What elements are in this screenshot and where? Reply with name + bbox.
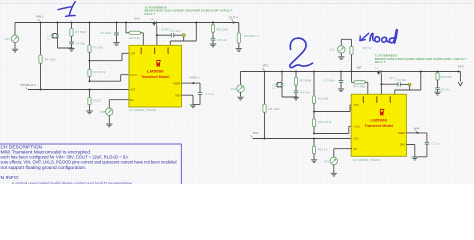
wire: U1 SENSE pin 3 to OUT bus (170, 23, 196, 46)
node UVLO tap circuit 2 (313, 133, 315, 135)
wire: OVP tap to U1 OVP pin (90, 53, 130, 60)
svg-text:R1 20k: R1 20k (93, 46, 103, 50)
voltage source VB5 on EN (109, 100, 129, 109)
resistor R6 100k (40, 23, 42, 56)
wire: GND pin of U1 to ground (182, 95, 194, 104)
svg-text:ID 9: ID 9 (135, 16, 140, 20)
svg-text:R4 4.99k: R4 4.99k (353, 85, 366, 89)
svg-text:C4 20n: C4 20n (76, 42, 86, 46)
diode D2 (56, 34, 59, 37)
ground at U1 GND (190, 105, 196, 108)
svg-text:V10: V10 (231, 87, 237, 91)
transistor Q2 PMOS pass FET (154, 21, 156, 26)
svg-text:U2 LM5060_TRANS: U2 LM5060_TRANS (353, 158, 380, 162)
svg-text:OVP: OVP (130, 53, 135, 56)
svg-text:VIN 1: VIN 1 (36, 15, 44, 19)
svg-text:VF1: VF1 (263, 64, 269, 68)
svg-text:R3 1k: R3 1k (93, 99, 101, 103)
wire: OUT to RLOAD (234, 23, 239, 34)
wire: diode pair to C4 node circuit 2 (277, 87, 296, 97)
wire: UVLO tap to U1 UVLO pin (90, 75, 130, 82)
capacitor C4 20n (69, 42, 74, 44)
diode D2 circuit 2 (280, 83, 283, 86)
svg-text:V12: V12 (330, 47, 336, 51)
ground below C2 (113, 43, 119, 46)
ground at U2 GND (412, 157, 418, 160)
capacitor C5 10n circuit 2 (435, 88, 440, 90)
wire: U2 SENSE pin to VF1 bus (395, 72, 421, 95)
node OVP tap circuit 2 (313, 111, 315, 113)
ground below C4 (68, 48, 74, 51)
svg-text:TIMER: TIMER (173, 82, 181, 85)
svg-text:BESDV=D50 C6G2=Q40SP CE02=40P: BESDV=D50 C6G2=Q40SP CE02=40P CG50=270P … (145, 9, 233, 13)
svg-text:V11: V11 (324, 159, 329, 163)
resistor R8 100k circuit 2 (437, 71, 439, 73)
svg-text:C2 100n: C2 100n (100, 31, 112, 35)
probe on C1 output (182, 34, 185, 37)
handwritten annotation word load (370, 33, 374, 40)
voltage source V11 on EN circuit 2 (334, 149, 352, 158)
resistor R10 30.1k circuit 2 (313, 112, 315, 120)
voltage source VIN (14, 23, 16, 36)
resistor R7 500k (71, 22, 73, 24)
ground below R3 (86, 111, 92, 114)
svg-text:GND: GND (400, 144, 406, 147)
wire: R4 to U2 VIN pin (365, 82, 368, 94)
resistor R3 1k (89, 89, 91, 91)
wire: Q2 gate to gate node (156, 26, 158, 36)
description text box border (0, 144, 181, 192)
ground below C2 circuit 2 (338, 89, 344, 92)
capacitor C10 20n (381, 83, 397, 85)
resistor R11 20k circuit 2 (313, 71, 315, 73)
svg-text:C7 1u: C7 1u (205, 92, 213, 96)
svg-text:EN: EN (354, 148, 358, 151)
resistor R2 30.1k (89, 61, 91, 70)
transistor T1 PMOS pass FET circuit 2 (379, 70, 381, 75)
svg-text:R7 500k: R7 500k (300, 79, 312, 83)
svg-text:R4 5.0k: R4 5.0k (130, 36, 141, 40)
ground below V11 (331, 173, 337, 176)
svg-text:R9 7.2: R9 7.2 (363, 46, 372, 50)
svg-text:RLOAD 7.2: RLOAD 7.2 (244, 34, 260, 38)
svg-text:R8 100k: R8 100k (216, 28, 228, 32)
resistor R4 5.0k (125, 22, 127, 24)
svg-text:ABT: ABT (357, 66, 362, 70)
svg-text:N INFO:: N INFO: (1, 175, 20, 180)
resistor R8 100k (212, 22, 214, 24)
svg-text:RG=1 T: RG=1 T (375, 60, 386, 64)
svg-text:R6 100k: R6 100k (269, 107, 281, 111)
svg-text:R6 100k: R6 100k (45, 58, 57, 62)
svg-text:nFLT: nFLT (130, 89, 136, 92)
ground below R12 (311, 160, 317, 163)
svg-text:R11 20k: R11 20k (318, 97, 329, 101)
svg-text:GND: GND (175, 94, 181, 97)
handwritten annotation digit 1 (58, 2, 75, 17)
svg-text:nFLT: nFLT (354, 138, 360, 141)
voltage source V10 (240, 72, 242, 86)
capacitor C2 100n (116, 22, 118, 24)
capacitor C5 10n (211, 38, 216, 40)
svg-text:R2 30.1k: R2 30.1k (93, 70, 106, 74)
svg-text:UP 7: UP 7 (389, 76, 396, 80)
diode D3 (57, 22, 59, 24)
ground below V12 (338, 57, 344, 60)
resistor R6 100k circuit 2 (264, 72, 266, 105)
svg-text:LM5060: LM5060 (371, 119, 388, 123)
svg-text:C1 10n: C1 10n (171, 29, 180, 33)
sheet top border line (0, 3, 474, 5)
load branch: resistor R9 7.2 (351, 71, 353, 73)
op-amp U1 LM5060 transient model block (129, 45, 182, 107)
ground below VIN (12, 49, 18, 52)
svg-text:RTN/FLG 3: RTN/FLG 3 (21, 83, 37, 87)
svg-text:TIMER: TIMER (398, 132, 406, 135)
svg-text:LM5060: LM5060 (147, 70, 164, 74)
ground below VB5 (106, 124, 112, 127)
svg-text:OUT 4: OUT 4 (229, 15, 238, 19)
svg-text:UVLO: UVLO (130, 74, 137, 77)
node gate (156, 34, 158, 36)
svg-text:EN: EN (130, 99, 134, 102)
ground below C5 (210, 44, 216, 47)
svg-text:C5 10n: C5 10n (217, 38, 227, 42)
svg-text:VP4: VP4 (414, 127, 420, 131)
svg-text:GATE 8: GATE 8 (161, 28, 171, 32)
node gate circuit 2 (380, 83, 382, 85)
svg-text:C4 20n: C4 20n (300, 91, 310, 95)
handwritten annotation digit 2 (290, 38, 313, 67)
resistor R4 4.99k circuit 2 (352, 72, 355, 83)
capacitor C2 100n circuit 2 (340, 71, 342, 73)
svg-text:C2 100n: C2 100n (324, 79, 336, 83)
wire: diode pair to C4 node (53, 38, 72, 48)
wire: VF2 net to U2 (253, 138, 353, 140)
wire: GND pin of U2 to ground (406, 145, 415, 157)
svg-text:e original unencrypted model p: e original unencrypted model please cont… (12, 181, 133, 184)
wire: RTN/FLG net to U1 (28, 89, 129, 91)
wire: OVP tap to U2 (314, 105, 352, 112)
svg-text:OVP: OVP (354, 104, 359, 107)
svg-text:not support floating ground co: not support floating ground configuratio… (1, 165, 87, 170)
ground below RLOAD (236, 49, 242, 52)
wire: gate node to U1 GATE pin 2 (156, 35, 158, 45)
svg-text:R7 500k: R7 500k (75, 30, 87, 34)
svg-text:Transient Model: Transient Model (141, 75, 170, 79)
capacitor C7 timer (198, 93, 203, 95)
svg-text:TIMER 2: TIMER 2 (189, 76, 200, 80)
svg-text:VF3: VF3 (458, 64, 464, 68)
resistor R1 20k (89, 22, 91, 24)
ground below C5 circuit 2 (434, 92, 440, 95)
wire: T1 gate to gate node circuit 2 (380, 75, 382, 85)
svg-text:C5 10n: C5 10n (440, 87, 450, 91)
wire: gate node to U2 GATE pin (380, 84, 382, 94)
svg-text:UVLO: UVLO (354, 126, 361, 129)
ground below V10 (237, 97, 243, 100)
resistor RLOAD 7.2 (237, 33, 240, 43)
svg-text:VF2: VF2 (253, 131, 259, 135)
wire: VIN top bus circuit 1 (15, 22, 234, 24)
svg-text:C10 20n: C10 20n (396, 78, 407, 82)
wire: R4 to U1 VIN pin 1 (140, 33, 143, 46)
svg-text:R12 1k: R12 1k (318, 148, 328, 152)
diode D3 circuit 2 (281, 71, 283, 73)
svg-text:VIN: VIN (5, 37, 10, 41)
svg-text:Transient Model: Transient Model (365, 124, 394, 128)
svg-text:R8 100k: R8 100k (440, 75, 452, 79)
ground below C4 circuit 2 (293, 97, 299, 100)
svg-text:U1 LM5060_TRANS: U1 LM5060_TRANS (129, 108, 156, 112)
arrow terminal at VF3 (458, 82, 462, 86)
svg-text:C7 1u: C7 1u (431, 142, 439, 146)
svg-text:R10 30.1k: R10 30.1k (318, 120, 332, 124)
svg-text:RG=1 T: RG=1 T (145, 12, 156, 16)
node OVP divider tap (89, 60, 91, 62)
handwritten annotation arrow to load (360, 33, 369, 40)
wire: VF1 top bus circuit 2 (241, 71, 459, 73)
probe on C10 output (408, 83, 411, 86)
capacitor C7 timer circuit 2 (425, 142, 430, 144)
node UVLO divider tap (89, 80, 91, 82)
capacitor C1 10n (157, 34, 171, 36)
load branch: voltage source V12 (340, 39, 342, 46)
capacitor C4 20n circuit 2 (294, 91, 299, 93)
op-amp U2 LM5060 transient model block (351, 94, 406, 156)
svg-text:BESDV=D50 C6G2=Q40P CE02=40P C: BESDV=D50 C6G2=Q40P CE02=40P CG50=270P +… (375, 57, 467, 61)
resistor R12 1k circuit 2 (313, 138, 315, 140)
wire: UVLO tap to U2 (314, 126, 352, 133)
resistor R7 500k circuit 2 (295, 71, 297, 73)
svg-text:VB5: VB5 (100, 110, 106, 114)
